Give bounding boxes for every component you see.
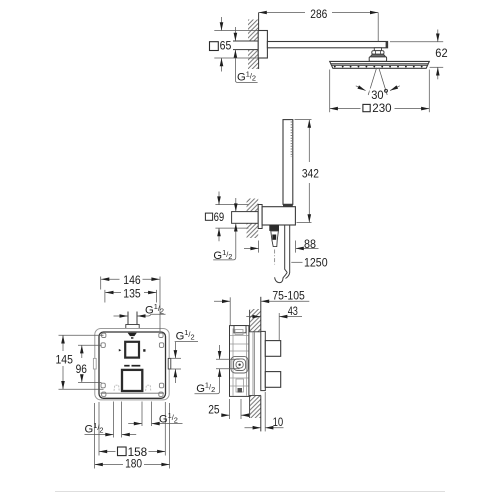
svg-text:96: 96 bbox=[76, 362, 88, 376]
svg-text:30: 30 bbox=[371, 88, 384, 102]
svg-text:146: 146 bbox=[123, 273, 141, 287]
svg-text:43: 43 bbox=[288, 304, 299, 318]
svg-text:75-105: 75-105 bbox=[272, 289, 305, 303]
svg-text:25: 25 bbox=[208, 402, 220, 416]
svg-text:145: 145 bbox=[56, 352, 74, 366]
svg-text:69: 69 bbox=[214, 210, 225, 224]
svg-text:10: 10 bbox=[273, 415, 284, 429]
svg-text:342: 342 bbox=[302, 166, 319, 180]
svg-text:230: 230 bbox=[372, 101, 392, 115]
svg-text:135: 135 bbox=[123, 287, 141, 301]
svg-text:1250: 1250 bbox=[304, 255, 328, 269]
svg-text:62: 62 bbox=[435, 46, 447, 60]
svg-text:88: 88 bbox=[304, 237, 316, 251]
svg-text:180: 180 bbox=[125, 456, 142, 470]
svg-text:65: 65 bbox=[220, 39, 232, 53]
svg-text:286: 286 bbox=[310, 7, 327, 21]
